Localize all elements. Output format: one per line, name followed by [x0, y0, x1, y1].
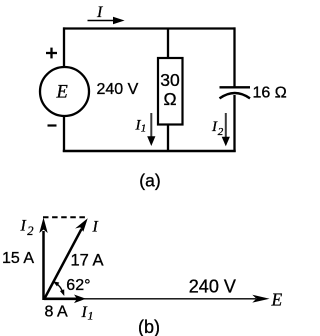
- arrow for current I: [88, 17, 125, 25]
- svg-text:I: I: [96, 4, 103, 21]
- arrow for current I2: [222, 113, 230, 146]
- svg-text:2: 2: [27, 224, 33, 238]
- wire right lower: [233, 95, 235, 152]
- phasor axis E (b): [44, 295, 270, 303]
- svg-text:8 A: 8 A: [45, 303, 68, 320]
- svg-text:1: 1: [141, 123, 147, 135]
- svg-text:17 A: 17 A: [71, 251, 104, 269]
- phasor I (diagonal vector): [44, 218, 88, 299]
- dashed construction line: [43, 216, 87, 218]
- vector label I1: [81, 304, 94, 323]
- svg-text:62°: 62°: [66, 277, 90, 294]
- source E (circle): [40, 67, 89, 116]
- plus terminal: [46, 48, 57, 59]
- phasor I1 (horizontal vector): [44, 295, 86, 304]
- svg-text:16 Ω: 16 Ω: [253, 84, 287, 101]
- angle arc 62deg: [53, 281, 65, 296]
- svg-text:30: 30: [160, 70, 180, 90]
- capacitor C 16ohm: [220, 87, 251, 98]
- svg-text:(a): (a): [139, 171, 160, 191]
- svg-text:I: I: [81, 304, 88, 321]
- svg-text:I: I: [20, 218, 27, 235]
- svg-text:E: E: [271, 290, 283, 310]
- branch current label I2: [211, 119, 224, 138]
- wire left upper: [63, 27, 65, 67]
- wire resistor branch top: [167, 28, 169, 59]
- svg-text:Ω: Ω: [163, 89, 176, 109]
- svg-text:1: 1: [88, 309, 94, 323]
- arrow for current I1: [147, 113, 155, 146]
- wire left lower: [63, 116, 65, 152]
- svg-text:I: I: [92, 218, 99, 235]
- svg-text:(b): (b): [138, 317, 160, 336]
- wire bottom: [63, 150, 236, 152]
- svg-text:E: E: [56, 83, 68, 103]
- branch current label I1: [135, 118, 147, 135]
- svg-text:2: 2: [218, 126, 224, 138]
- vector label I2: [20, 218, 34, 238]
- wire right upper: [233, 27, 235, 87]
- svg-text:15 A: 15 A: [2, 250, 34, 267]
- svg-text:240 V: 240 V: [97, 81, 139, 98]
- svg-text:240 V: 240 V: [189, 276, 236, 296]
- wire top: [63, 27, 236, 29]
- wire resistor branch bottom: [167, 124, 169, 151]
- phasor I2 (vertical vector): [39, 218, 47, 301]
- resistor R 30ohm (box): [158, 58, 183, 125]
- minus terminal: [48, 124, 57, 126]
